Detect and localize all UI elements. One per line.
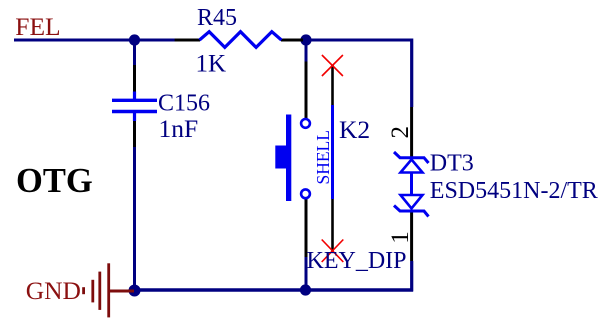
svg-text:2: 2 xyxy=(387,126,414,139)
no-ERC marker bottom xyxy=(322,240,344,263)
pin SHELL line of K2 xyxy=(313,65,333,252)
svg-text:1: 1 xyxy=(387,231,414,244)
power port GND xyxy=(26,263,134,317)
power port FEL xyxy=(15,12,60,41)
wire switch branch lower xyxy=(305,257,308,290)
svg-text:ESD5451N-2/TR: ESD5451N-2/TR xyxy=(430,178,598,204)
svg-text:OTG: OTG xyxy=(16,162,93,200)
junction node K2/bottom rail xyxy=(300,284,311,295)
svg-text:DT3: DT3 xyxy=(430,151,474,177)
svg-text:R45: R45 xyxy=(197,5,237,31)
svg-text:SHELL: SHELL xyxy=(313,130,333,184)
svg-text:KEY_DIP: KEY_DIP xyxy=(307,248,407,274)
wire capacitor branch upper xyxy=(133,40,136,65)
svg-text:1nF: 1nF xyxy=(159,114,199,143)
wire top rail left xyxy=(14,39,176,42)
wire right branch upper xyxy=(410,39,413,108)
junction node R45/K2 xyxy=(300,34,311,45)
wire right branch lower xyxy=(410,261,413,292)
wire switch branch upper xyxy=(305,40,308,62)
svg-text:FEL: FEL xyxy=(15,12,60,41)
capacitor C156 xyxy=(112,65,210,147)
svg-text:GND: GND xyxy=(26,276,81,305)
wire bottom rail xyxy=(133,288,413,291)
wire capacitor branch lower xyxy=(133,147,136,290)
resistor R45 xyxy=(175,5,303,78)
switch K2 xyxy=(275,62,370,258)
diode DT3 (TVS) xyxy=(394,107,598,261)
svg-text:C156: C156 xyxy=(158,91,210,117)
junction node FEL/C156 xyxy=(129,34,140,45)
junction node GND xyxy=(129,285,141,297)
no-ERC marker top xyxy=(322,55,343,76)
svg-text:K2: K2 xyxy=(339,115,370,144)
wire top rail right xyxy=(304,39,413,42)
svg-text:1K: 1K xyxy=(196,51,227,78)
